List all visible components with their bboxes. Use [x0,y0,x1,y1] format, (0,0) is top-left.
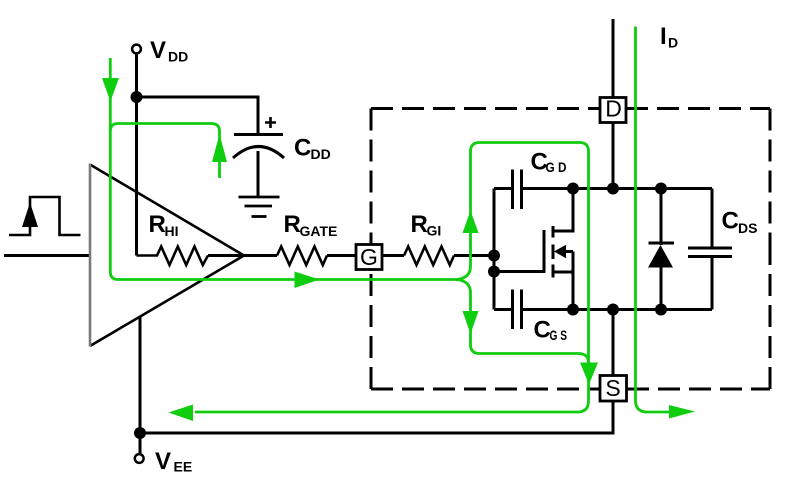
resistor RHI [137,247,209,266]
wire green supply down [110,58,458,280]
wire input [4,254,90,257]
wire G box to RGI [382,254,404,257]
capacitor CGD [513,170,522,210]
capacitor CGS [513,290,522,330]
wire CDS right branch top [711,189,714,249]
capacitor CDD [233,135,284,197]
wire drain main top [612,19,615,98]
green current paths [110,27,670,413]
wire VEE vertical [139,316,142,454]
svg-text:I: I [660,23,667,50]
wire D box to drain node [612,123,615,189]
wire green fork up [456,266,471,280]
capacitor CDS [688,248,732,257]
junction dot diode bottom [655,304,667,316]
junction dot VDD node [131,91,143,103]
resistor RGI [404,247,454,266]
svg-text:V: V [155,448,171,475]
wire VDD vertical [135,54,138,256]
arrow green right at driver output [295,272,320,289]
transistor Q1 MOSFET [494,189,573,310]
junction dot VEE node [134,427,146,439]
svg-text:HI: HI [165,223,179,239]
wire green loop top and right vertical and return [195,143,589,413]
wire drain top [521,187,712,190]
op-amp driver triangle [90,164,244,347]
wire gate bus [493,189,496,310]
wire RGATE to G box [327,254,356,257]
svg-text:R: R [411,211,428,238]
label CGS [534,317,568,344]
label CDS [722,208,758,237]
svg-text:GI: GI [427,223,442,239]
label RGATE [284,211,338,239]
wire green ID line [636,27,671,413]
wire RGI to gate node [454,254,494,257]
arrow green down on gate loop [463,311,479,334]
junction dot source node S [607,304,619,316]
svg-text:C: C [722,208,739,235]
wire CGS left [494,308,511,311]
plus sign CDD [265,117,276,128]
label RHI [149,211,179,239]
arrow green left return [169,405,194,422]
arrow green up at CDD [212,134,227,162]
wire RHI lead [208,254,277,257]
svg-text:DD: DD [168,49,188,65]
wire S box down and left to VEE [140,401,613,434]
svg-text:C: C [534,317,551,344]
svg-text:GATE: GATE [300,223,338,239]
arrow green down at VDD [102,78,119,102]
resistor RGATE [277,247,327,266]
input pulse symbol [9,197,81,235]
arrow green down at source [580,363,598,385]
svg-text:R: R [284,211,301,238]
label VDD [150,37,188,65]
arrow green right ID [669,405,695,419]
svg-text:C: C [294,135,311,162]
arrow green up on gate loop [463,211,479,234]
wire green CDD branch [110,124,219,179]
svg-text:D: D [668,35,678,51]
svg-text:G: G [360,244,378,270]
terminal VEE circle [135,454,144,463]
svg-text:G S: G S [550,327,568,343]
svg-text:D: D [605,96,622,122]
wire CGD left [494,187,511,190]
svg-text:DS: DS [738,220,757,236]
pin box S [600,375,627,401]
svg-text:DD: DD [311,146,331,162]
pin box D [600,96,626,123]
ground [239,197,280,217]
wire green loop left vertical lower [471,293,589,363]
wire source node to S box [612,310,615,377]
junction dot drain node D [607,183,619,195]
junction dot gate node lower [488,266,500,278]
svg-text:R: R [149,211,166,238]
transistor body arrow [554,245,566,258]
terminal VDD circle [132,45,141,54]
dashed package boundary [371,109,770,390]
junction dot MOSFET drain [567,183,579,195]
diode body [648,189,674,310]
junction dot MOSFET source [567,304,579,316]
wire source bottom [521,308,712,311]
svg-text:S: S [605,375,620,401]
wire VDD to CDD [137,97,259,134]
pin box G [356,244,382,270]
label RGI [411,211,442,239]
svg-text:V: V [150,37,166,64]
junction dot diode top [655,183,667,195]
svg-text:EE: EE [174,459,193,475]
svg-text:G D: G D [546,159,567,175]
label CDD [294,135,331,163]
label ID [660,23,678,51]
junction dot gate node upper [488,250,500,262]
wire CDS right branch bottom [711,257,714,310]
label CGD [531,149,567,176]
wire green fork down [456,280,471,294]
label VEE [155,448,192,475]
wire green loop left vertical upper [471,143,480,267]
